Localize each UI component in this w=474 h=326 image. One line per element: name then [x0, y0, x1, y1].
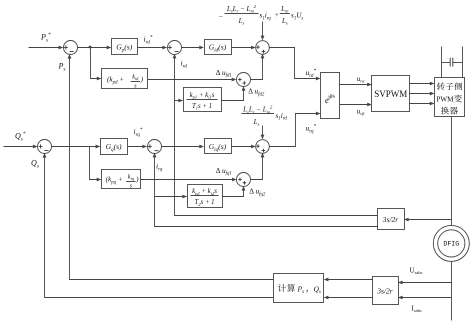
wire Ps feedback: [70, 56, 274, 280]
summing junction S5 (Qs): [38, 140, 52, 154]
summing junction S8 (delta ufq): [237, 173, 251, 187]
svg-text:DFIG: DFIG: [443, 241, 459, 248]
wire S1 to Gp with branch dot: [78, 47, 111, 49]
wire Gq to S6: [128, 146, 147, 148]
wire 3s/2r to calc bottom: [325, 297, 373, 299]
block PI kpq+kiq/s: [102, 170, 141, 189]
summing junction S2 (ird): [168, 41, 182, 55]
wire DC link left: [441, 47, 443, 78]
block SVPWM: [372, 76, 410, 112]
wire 3s/2r irq output: [155, 154, 378, 227]
wire S5 to Gq with branch: [52, 146, 100, 148]
svg-text:T2s + 1: T2s + 1: [194, 199, 214, 207]
svg-text:3s/2r: 3s/2r: [382, 215, 399, 224]
svg-text:PWM: PWM: [436, 96, 454, 104]
svg-text:T1s + 1: T1s + 1: [192, 103, 212, 111]
svg-text:): ): [140, 75, 144, 84]
summing junction S4 (delta ufd): [237, 73, 251, 87]
wire DFIG stator down: [451, 262, 453, 321]
wire ejtheta to SVPWM alpha: [340, 84, 371, 86]
block 3s/2r stator transform: [373, 277, 399, 305]
svg-text:−: −: [218, 12, 223, 21]
svg-text:): ): [135, 175, 139, 184]
wire SVPWM to converter 2: [410, 93, 434, 95]
wire S8 up to S7: [251, 154, 263, 180]
wire SVPWM to converter 3: [410, 103, 434, 105]
wire lead-lag 2 to S8: [223, 188, 244, 197]
wire ejtheta to SVPWM beta: [340, 104, 371, 106]
wire lead-lag 1 to S4: [222, 88, 244, 101]
svg-text:+: +: [275, 11, 279, 19]
block rotor-side PWM converter: [435, 78, 465, 117]
wire rotor current tap to 3s/2r: [406, 219, 452, 221]
wire SVPWM to converter 1: [410, 83, 434, 85]
summing junction S1 (Ps): [64, 41, 78, 55]
machine DFIG: [433, 225, 469, 261]
wire S2 to Gid: [182, 47, 203, 49]
wire branch S5 down to PI block q: [90, 147, 101, 180]
wire Gid to S3: [232, 47, 255, 49]
wire Qs feedback: [45, 155, 274, 298]
block Gp(s): [112, 39, 138, 55]
wire S3 to ejtheta (urd*): [270, 48, 320, 79]
wire stator voltage tap: [400, 282, 452, 284]
svg-text:Δ: Δ: [249, 187, 254, 196]
block lead-lag filter 2: [188, 185, 223, 208]
wire converter to DFIG rotor: [451, 117, 453, 226]
summing junction S3 (urd compensation): [256, 41, 270, 55]
wire Gp to S2: [138, 47, 167, 49]
block 3s/2r rotor current transform: [378, 209, 405, 230]
wire kpq PI to S8: [141, 179, 236, 181]
svg-text:3s/2r: 3s/2r: [376, 286, 393, 295]
wire kpd PI to S4: [148, 79, 236, 81]
wire feedforward term 1 into S3: [262, 22, 264, 40]
wire stator current tap: [400, 297, 452, 299]
svg-text:SVPWM: SVPWM: [374, 89, 407, 99]
wire Ps* input: [29, 47, 63, 49]
block ejtheta dq-to-alphabeta: [321, 73, 340, 119]
svg-text:Δ: Δ: [216, 166, 221, 175]
wire irq branch to lead-lag filter 2: [155, 196, 187, 198]
block PI kpd+kid/s: [102, 69, 148, 89]
wire branch S1 down to PI block: [91, 48, 101, 79]
svg-text:，: ，: [305, 284, 313, 293]
wire feedforward term 2 into S7: [262, 126, 264, 139]
block Giq(s): [205, 139, 232, 154]
capacitor C DC-link: [442, 62, 451, 64]
wire Giq to S7: [232, 146, 255, 148]
summing junction S7 (urq compensation): [256, 140, 270, 154]
summing junction S6 (irq): [148, 140, 162, 154]
wire S4 up to S3: [251, 55, 263, 80]
wire S6 to Giq: [162, 146, 203, 148]
block Gq(s): [101, 139, 128, 155]
svg-text:Δ: Δ: [216, 68, 221, 77]
wire 3s/2r to calc top: [325, 279, 373, 281]
wire 3s/2r ird output: [175, 55, 378, 216]
svg-text:Δ: Δ: [248, 87, 253, 96]
wire S7 to ejtheta (urq*): [270, 114, 320, 147]
wire DC link right: [462, 47, 464, 78]
wire Qs* input: [4, 146, 37, 148]
block lead-lag filter 1: [184, 88, 222, 112]
block Gid(s): [205, 40, 232, 55]
wire ird branch to lead-lag filter 1: [175, 100, 183, 102]
block calculate Ps Qs: [274, 274, 324, 303]
